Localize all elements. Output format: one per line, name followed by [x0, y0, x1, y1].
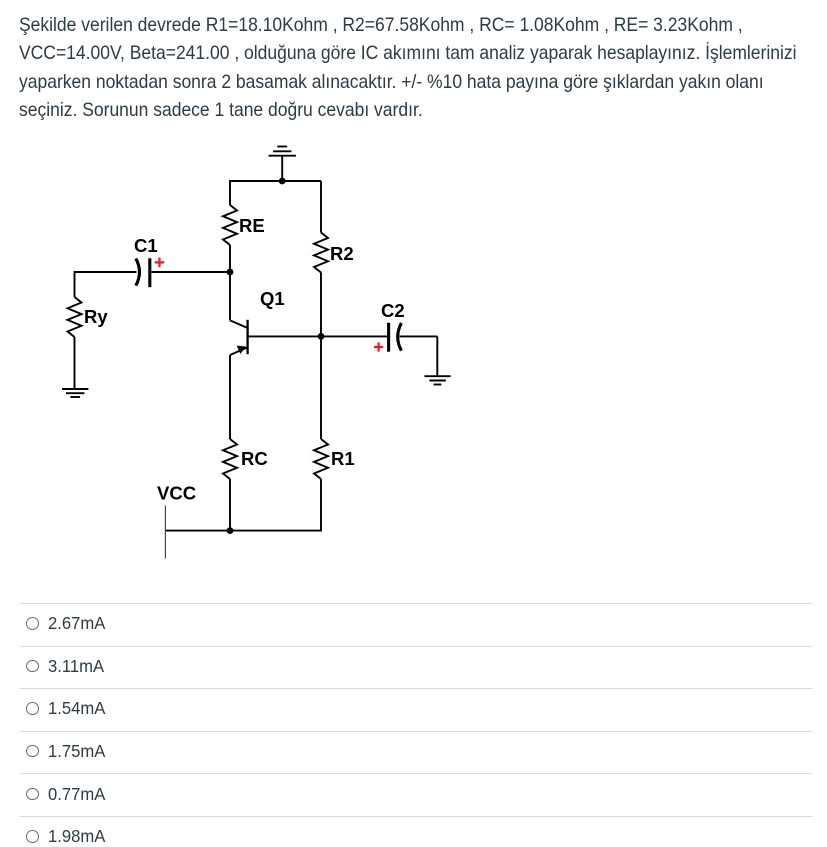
wire base/output rail: [248, 335, 388, 337]
node top-rail junction: [279, 178, 286, 185]
svg-text:C1: C1: [134, 235, 158, 256]
svg-text:RC: RC: [241, 448, 268, 469]
ground left: [62, 389, 88, 397]
resistor RE: [223, 205, 237, 245]
ground top: [269, 147, 296, 182]
polarity + of C1: [155, 258, 165, 268]
resistor R1: [314, 439, 328, 479]
wire emitter lead down to RC: [229, 355, 231, 439]
wire R2 top lead: [320, 181, 322, 233]
node RE / C1 / base branch junction: [227, 269, 234, 276]
capacitor C2: [389, 323, 402, 352]
resistor Ry: [68, 297, 82, 337]
wire top rail: [230, 180, 321, 182]
node bottom rail junction: [227, 527, 234, 534]
resistor RC: [223, 439, 237, 479]
wire RC bottom lead: [229, 479, 231, 531]
wire RE bottom lead: [229, 245, 231, 272]
answer options: [0, 0, 827, 1]
svg-text:RE: RE: [239, 215, 265, 236]
svg-text:R2: R2: [330, 243, 354, 264]
node output junction: [318, 333, 325, 340]
wire C1 right lead: [151, 271, 230, 273]
ground right: [424, 376, 450, 384]
question text: [19, 11, 827, 125]
svg-text:Q1: Q1: [260, 288, 285, 309]
transistor Q1: [230, 320, 248, 355]
wire C1 left lead: [75, 271, 137, 273]
svg-text:R1: R1: [331, 448, 355, 469]
wire R1 bottom lead: [320, 479, 322, 531]
wire Ry bottom lead: [74, 337, 76, 389]
resistor R2: [314, 233, 328, 273]
wire down to right ground: [436, 336, 438, 376]
svg-text:Ry: Ry: [84, 306, 108, 327]
wire bottom rail: [165, 530, 322, 532]
wire RE top lead: [229, 180, 231, 205]
wire C2 right lead: [400, 335, 438, 337]
wire R1 top lead: [320, 336, 322, 439]
VCC terminal stub: [164, 506, 166, 559]
wire collector lead: [229, 272, 231, 320]
wire R2 bottom lead: [320, 273, 322, 337]
polarity + of C2: [374, 342, 383, 351]
wire Ry top lead: [74, 271, 76, 297]
capacitor C1: [136, 258, 150, 287]
svg-text:VCC: VCC: [157, 483, 196, 504]
svg-text:C2: C2: [381, 300, 405, 321]
